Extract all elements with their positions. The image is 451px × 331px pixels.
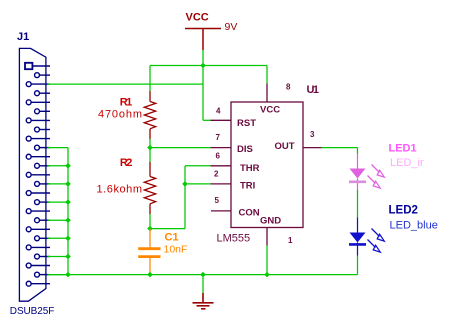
LED1 (LED_ir) <box>349 154 384 191</box>
svg-text:LM555: LM555 <box>217 233 251 245</box>
connector J1 pin 15 <box>26 191 31 196</box>
wire DIS row <box>150 147 211 149</box>
wire pin22 to bus <box>48 256 69 258</box>
connector J1 pin 1 (square) <box>25 63 32 69</box>
junction bus row k15 <box>65 199 71 205</box>
svg-text:DIS: DIS <box>237 144 253 155</box>
wire OUT to LED branch <box>322 147 358 149</box>
junction C1 bottom <box>147 272 153 278</box>
connector J1 pin 4 <box>35 91 40 96</box>
connector J1 pin 14 <box>35 181 40 186</box>
svg-text:6: 6 <box>216 152 221 161</box>
junction GND/bottom rail <box>264 272 270 278</box>
connector J1 pin 3 <box>26 82 31 87</box>
svg-text:CON: CON <box>239 208 260 219</box>
U1 pin 6 stub THR <box>211 165 232 167</box>
svg-text:GND: GND <box>260 216 281 227</box>
connector J1 pin 7 <box>26 118 31 123</box>
LED2 (LED_blue) <box>349 218 384 256</box>
wire TRI row <box>185 183 211 185</box>
connector J1 pin 6 <box>35 109 40 114</box>
wire LED2 to bottom rail <box>357 256 359 275</box>
wire pin14 to bus <box>48 183 69 185</box>
svg-text:470ohm: 470ohm <box>98 108 142 120</box>
capacitor C1 <box>138 229 160 275</box>
svg-text:OUT: OUT <box>275 141 295 152</box>
junction R2/C1/THR <box>147 226 153 232</box>
connector J1 pin 16 <box>35 200 40 205</box>
op-amp/timer U1 LM555 box <box>231 102 303 228</box>
U1 pin 7 stub DIS <box>211 147 232 149</box>
junction bus row k19 <box>65 236 71 242</box>
svg-text:TRI: TRI <box>240 181 255 192</box>
svg-text:DSUB25F: DSUB25F <box>10 306 55 317</box>
wire R1 bottom <box>149 139 151 162</box>
connector J1 pin 17 <box>26 209 31 214</box>
wire THR riser vertical <box>184 166 186 229</box>
connector J1 pin 9 <box>26 136 31 141</box>
wire top rail <box>150 65 267 67</box>
svg-text:LED1: LED1 <box>389 143 417 155</box>
connector J1 pin 11 <box>26 154 31 159</box>
wire LED branch vertical top <box>357 148 359 154</box>
wire pin24 to bus <box>48 274 69 276</box>
svg-text:9V: 9V <box>225 21 238 33</box>
svg-text:J1: J1 <box>17 31 29 43</box>
connector J1 pin 23 <box>26 263 31 268</box>
wire junction to THR riser <box>150 228 185 230</box>
junction ground <box>200 272 206 278</box>
wire pin12 to bus <box>48 165 69 167</box>
wire between LEDs <box>357 190 359 218</box>
U1 pin 1 stub GND <box>266 228 268 246</box>
wire pin10 to bus <box>48 147 69 149</box>
U1 pin 4 stub RST <box>211 119 232 121</box>
junction bus row k17 <box>65 217 71 223</box>
svg-text:8: 8 <box>286 83 291 92</box>
junction TRI on riser <box>182 181 188 187</box>
wire top rail to R1 <box>149 66 151 92</box>
U1 pin 8 stub <box>266 84 268 103</box>
connector J1 pin 5 <box>26 100 31 105</box>
connector J1 pin 25 <box>26 281 31 286</box>
svg-text:7: 7 <box>216 133 221 142</box>
svg-text:VCC: VCC <box>260 104 280 115</box>
junction R1/R2/DIS <box>147 145 153 151</box>
VCC power symbol <box>185 29 221 51</box>
wire THR row <box>185 165 211 167</box>
svg-text:10nF: 10nF <box>164 244 188 256</box>
wire pin3 row to VCC drop <box>48 83 204 85</box>
svg-text:3: 3 <box>310 130 315 139</box>
wire pin16 to bus <box>48 201 69 203</box>
svg-text:C1: C1 <box>165 232 179 244</box>
connector J1 pin 10 <box>35 145 40 150</box>
svg-text:RST: RST <box>237 118 256 129</box>
svg-text:LED_blue: LED_blue <box>390 220 438 232</box>
connector J1 pin 13 <box>26 172 31 177</box>
wire VCC vertical down to RST row <box>202 66 204 121</box>
svg-text:4: 4 <box>216 107 221 116</box>
svg-text:5: 5 <box>215 196 220 205</box>
connector J1 pin 20 <box>35 236 40 241</box>
connector J1 pin 19 <box>26 227 31 232</box>
junction VCC rail <box>200 63 206 69</box>
wire GND pin to bottom rail <box>266 246 268 275</box>
U1 pin 2 stub TRI <box>211 183 232 185</box>
junction bus row k21 <box>65 254 71 260</box>
wire R2 bottom <box>149 214 151 229</box>
junction bus row k11 <box>65 163 71 169</box>
ground symbol <box>202 275 204 293</box>
U1 pin 5 stub CON <box>211 210 231 212</box>
svg-text:U1: U1 <box>307 84 320 96</box>
connector J1 pin 2 <box>35 73 40 78</box>
resistor R2 <box>144 162 155 214</box>
svg-text:LED2: LED2 <box>389 205 418 217</box>
svg-text:THR: THR <box>240 163 260 174</box>
wire bottom rail <box>48 274 358 276</box>
svg-text:1: 1 <box>288 236 293 245</box>
connector J1 pin 8 <box>35 127 40 132</box>
connector J1 pin 18 <box>35 218 40 223</box>
wire pin8 drop <box>266 66 268 84</box>
svg-text:R1: R1 <box>120 96 133 108</box>
connector J1 pin 22 <box>35 254 40 259</box>
U1 pin 3 stub OUT <box>303 147 322 149</box>
resistor R1 <box>144 91 155 139</box>
junction bus row k23 <box>65 272 71 278</box>
wire pin20 to bus <box>48 237 69 239</box>
connector J1 pin 21 <box>26 245 31 250</box>
junction bus row k13 <box>65 181 71 187</box>
svg-text:2: 2 <box>214 170 219 179</box>
svg-text:LED_ir: LED_ir <box>390 157 424 169</box>
connector J1 pin 24 <box>35 272 40 277</box>
wire pin18 to bus <box>48 219 69 221</box>
svg-text:1.6kohm: 1.6kohm <box>97 183 143 195</box>
connector J1 pin 12 <box>35 163 40 168</box>
connector J1 outline <box>19 48 46 301</box>
svg-text:VCC: VCC <box>186 12 209 24</box>
wire RST row horizontal <box>203 119 211 121</box>
svg-text:R2: R2 <box>120 157 132 169</box>
wire bus vertical <box>67 148 69 275</box>
